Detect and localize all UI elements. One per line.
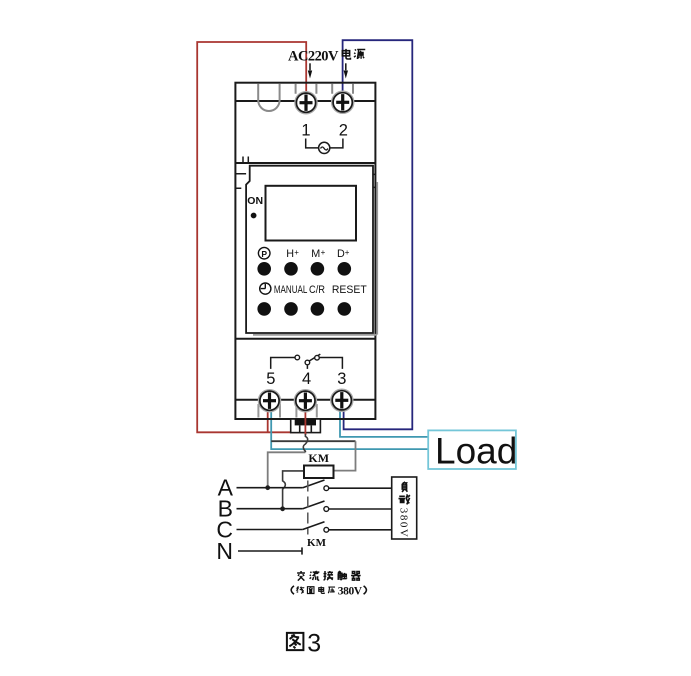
- relay switch contact right: [315, 355, 320, 360]
- button H: [284, 262, 298, 276]
- terminal 1 slot: [296, 84, 317, 94]
- svg-text:AC220V: AC220V: [288, 48, 339, 64]
- svg-text:N: N: [216, 538, 233, 564]
- label MANUAL: [274, 284, 308, 297]
- label terminal 1: [301, 122, 310, 140]
- caption 交流接触器: [297, 571, 361, 581]
- terminal 4 housing: [296, 404, 316, 418]
- terminal 5 housing: [258, 404, 280, 418]
- phase line A: [237, 487, 303, 489]
- clock icon: [260, 283, 271, 294]
- wire black: terminal4 drop with hops over black and cyan wires: [303, 433, 307, 452]
- button P: [257, 262, 271, 276]
- contact B moving circle: [324, 507, 329, 512]
- wire B to load box: [329, 508, 392, 510]
- wire C to load box: [329, 529, 392, 531]
- button D: [338, 262, 352, 276]
- screw terminal 1: [295, 92, 317, 114]
- label C: [216, 517, 233, 543]
- wire black: coil left to phase B with hop over phase A: [283, 471, 304, 509]
- wire red L supply loop: terminal1 up, left, down, bottom to terminals 5/4: [197, 42, 306, 435]
- label A: [218, 475, 234, 501]
- caption (线圈电压380V): [291, 585, 366, 597]
- top cable bump (U shape): [258, 84, 279, 111]
- svg-text:ON: ON: [247, 195, 263, 207]
- junction dot on phase B: [280, 506, 285, 511]
- label C/R: [309, 284, 325, 296]
- svg-text:KM: KM: [307, 537, 327, 549]
- svg-text:3: 3: [307, 630, 321, 658]
- svg-text:H: H: [286, 248, 294, 260]
- LED dot: [251, 213, 257, 219]
- terminal 2 slot: [332, 84, 353, 94]
- button MANUAL: [284, 302, 298, 316]
- relay switch pivot: [305, 360, 310, 369]
- contact A moving circle: [324, 486, 329, 491]
- wire gray: down to coil right terminal: [334, 441, 356, 470]
- caption 图3: [287, 630, 321, 658]
- phase line C: [237, 529, 303, 531]
- svg-text:5: 5: [266, 370, 275, 388]
- label terminal 2: [339, 122, 348, 140]
- Load annotation box: [428, 430, 516, 469]
- button C/R: [311, 302, 325, 316]
- svg-text:M: M: [311, 248, 320, 260]
- arrow to terminal 1: [308, 63, 312, 78]
- wire A to load box: [329, 487, 392, 489]
- svg-text:P: P: [261, 249, 267, 259]
- svg-text:+: +: [345, 248, 350, 257]
- side tick marks: [235, 174, 375, 189]
- neutral line N: [238, 547, 302, 554]
- svg-text:380V: 380V: [397, 508, 409, 537]
- arrow to terminal 2: [344, 63, 348, 78]
- label N: [216, 538, 233, 564]
- button RESET: [338, 302, 352, 316]
- AC source symbol between 1 and 2: [306, 139, 343, 154]
- screw terminal 5: [259, 390, 281, 412]
- svg-text:+: +: [294, 248, 299, 257]
- load box 380V: [392, 477, 417, 539]
- label KM (coil): [308, 451, 329, 465]
- junction dot on phase A: [265, 485, 270, 490]
- contact B lever: [303, 501, 325, 509]
- svg-text:MANUAL: MANUAL: [274, 284, 308, 297]
- relay switch symbol: left bracket from terminal 5: [271, 358, 295, 369]
- svg-text:1: 1: [301, 122, 310, 140]
- button label M+: [311, 248, 325, 260]
- label KM (contacts): [307, 537, 327, 549]
- svg-text:Load: Load: [435, 431, 517, 472]
- timer body outline: [235, 83, 375, 419]
- relay switch fixed contact left: [295, 355, 300, 360]
- DIN rail clip: [291, 419, 321, 433]
- label B: [218, 496, 233, 522]
- wire red over clip to terminal 4: [304, 418, 306, 434]
- contact A lever: [303, 480, 325, 488]
- button label D+: [337, 248, 350, 260]
- label 负载380V (vertical): [397, 482, 410, 537]
- screw terminal 4: [294, 390, 316, 412]
- svg-text:RESET: RESET: [332, 284, 367, 296]
- label RESET: [332, 284, 367, 296]
- label ON: [247, 195, 263, 207]
- label Load: [435, 431, 517, 472]
- button clock: [257, 302, 271, 316]
- svg-text:380V: 380V: [338, 585, 363, 597]
- contactor linkage dashed line: [307, 481, 309, 535]
- button label H+: [286, 248, 299, 260]
- screw terminal 3: [331, 389, 353, 411]
- wire gray: terminal4 branch to phase A: [268, 452, 306, 487]
- phase line B: [237, 508, 303, 510]
- button label P (circled): [258, 247, 270, 259]
- screw terminal 2: [332, 91, 354, 113]
- label terminal 4: [302, 370, 311, 388]
- svg-text:KM: KM: [308, 451, 329, 465]
- relay switch lever: [309, 354, 320, 361]
- svg-text:+: +: [321, 248, 326, 257]
- svg-text:3: 3: [337, 370, 346, 388]
- label AC220V power supply text: [288, 48, 365, 64]
- button M: [311, 262, 325, 276]
- wire cyan load outputs: terminal5 and terminal3 to Load box: [271, 404, 428, 449]
- label terminal 3: [337, 370, 346, 388]
- wire black: coil feed from terminal5 line to coil right side: [271, 440, 355, 442]
- wire navy N supply loop: terminal2 up, right, down, left to terminal 3: [343, 40, 413, 429]
- svg-text:D: D: [337, 248, 345, 260]
- LCD display: [266, 186, 357, 241]
- DIN tab stubs left of middle section: [243, 157, 248, 164]
- contactor coil KM: [304, 466, 334, 479]
- relay switch right bracket to terminal 3: [320, 358, 343, 369]
- label terminal 5: [266, 370, 275, 388]
- contact C lever: [303, 522, 325, 530]
- svg-text:2: 2: [339, 122, 348, 140]
- timer front panel: [246, 166, 377, 335]
- svg-text:C/R: C/R: [309, 284, 325, 296]
- svg-text:4: 4: [302, 370, 311, 388]
- contact C moving circle: [324, 527, 329, 532]
